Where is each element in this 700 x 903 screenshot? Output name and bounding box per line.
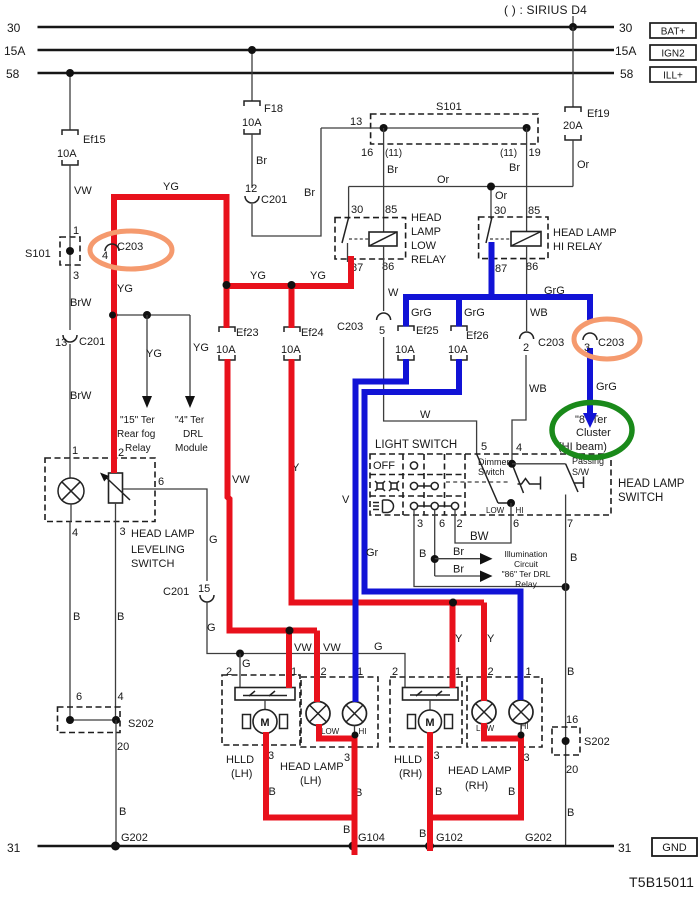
svg-text:30: 30: [494, 205, 506, 217]
wire Y Ef24 to RH lamps (red): [292, 359, 485, 701]
svg-text:Or: Or: [437, 174, 450, 186]
svg-text:WB: WB: [529, 383, 547, 395]
HEAD LAMP RH box: [448, 677, 542, 792]
label illumination circuit: [502, 549, 551, 589]
svg-text:M: M: [425, 717, 434, 729]
svg-text:LOW: LOW: [411, 240, 437, 252]
svg-text:F18: F18: [264, 103, 283, 115]
svg-text:2: 2: [321, 666, 327, 678]
svg-text:YG: YG: [193, 342, 209, 354]
connector C203 pin 2: [520, 332, 565, 354]
svg-text:G202: G202: [525, 832, 552, 844]
svg-text:Or: Or: [495, 190, 508, 202]
bus line 58: [6, 67, 634, 81]
svg-text:3: 3: [344, 752, 350, 764]
label T5B15011: [629, 874, 694, 890]
svg-text:Br: Br: [387, 164, 398, 176]
svg-text:10A: 10A: [281, 344, 301, 356]
wire W LOW relay 86 to dimmer pin 5: [384, 246, 477, 454]
wire WB HI relay 86 to headlamp switch pin 4: [512, 246, 548, 464]
bus line 30: [7, 21, 633, 35]
svg-text:VW: VW: [323, 642, 341, 654]
svg-text:S/W: S/W: [572, 467, 590, 477]
svg-text:Br: Br: [509, 162, 520, 174]
svg-text:GND: GND: [662, 842, 687, 854]
splice S202 left: [58, 691, 154, 753]
lamp LOW RH: [472, 700, 496, 733]
svg-text:12: 12: [245, 183, 257, 195]
label cluster HI beam: [558, 414, 611, 453]
svg-text:HLLD: HLLD: [226, 754, 254, 766]
svg-text:B: B: [567, 666, 574, 678]
svg-text:Br: Br: [304, 187, 315, 199]
wire BrW C201-13 to leveling switch 1: [70, 344, 92, 458]
wire VW Ef23 to LH lamps (red): [228, 359, 318, 702]
wire B light switch 3 to pin7 wire: [414, 516, 570, 591]
svg-text:6: 6: [513, 518, 519, 530]
orange ellipse C203 right: [574, 319, 640, 359]
wire YG branch to Ef24 (red): [289, 286, 295, 328]
label 4 Ter DRL Module: [175, 415, 208, 454]
svg-text:HEAD LAMP: HEAD LAMP: [131, 528, 195, 540]
svg-text:SWITCH: SWITCH: [131, 558, 174, 570]
label V: [342, 494, 350, 506]
svg-text:YG: YG: [310, 270, 326, 282]
svg-text:B: B: [119, 806, 126, 818]
motor M RH: [408, 700, 453, 745]
wire branch rear fog and DRL arrows: [111, 311, 209, 408]
fuse Ef23 10A: [216, 327, 259, 360]
wire G C201-15 to HLLD pins 2: [207, 602, 405, 688]
svg-text:BrW: BrW: [70, 297, 92, 309]
svg-text:YG: YG: [146, 348, 162, 360]
svg-text:Y: Y: [455, 633, 463, 645]
svg-text:( ) : SIRIUS D4: ( ) : SIRIUS D4: [504, 3, 587, 17]
svg-text:G: G: [207, 622, 216, 634]
svg-text:Ef23: Ef23: [236, 327, 259, 339]
HLLD LH box: [222, 675, 300, 780]
svg-text:HEAD: HEAD: [411, 212, 442, 224]
svg-text:C203: C203: [538, 337, 564, 349]
svg-text:3: 3: [120, 526, 126, 538]
wire Br F18 to C201: [252, 134, 267, 188]
svg-text:31: 31: [618, 841, 632, 855]
svg-text:30: 30: [351, 204, 363, 216]
svg-text:5: 5: [379, 325, 385, 337]
svg-text:LEVELING: LEVELING: [131, 544, 185, 556]
svg-text:RELAY: RELAY: [411, 254, 447, 266]
svg-text:VW: VW: [232, 474, 250, 486]
svg-text:Ef19: Ef19: [587, 108, 610, 120]
wire Br S101-19 to HI relay 85: [500, 128, 541, 232]
svg-text:B: B: [343, 824, 350, 836]
bus line 15A: [4, 44, 636, 58]
mechanical link dashed: [446, 481, 508, 483]
svg-text:W: W: [420, 409, 431, 421]
svg-text:HI: HI: [359, 727, 367, 736]
svg-text:B: B: [435, 786, 442, 798]
svg-text:(RH): (RH): [465, 780, 488, 792]
svg-text:Ef15: Ef15: [83, 134, 106, 146]
switch passing: [512, 456, 604, 530]
ground G202 right label: [525, 832, 552, 844]
svg-text:Br: Br: [453, 564, 464, 576]
wire YG branch to Ef23 (red): [224, 283, 230, 328]
svg-text:G202: G202: [121, 832, 148, 844]
lamp LOW LH: [306, 702, 340, 737]
svg-text:Br: Br: [256, 155, 267, 167]
label pins 4 3 leveling: [72, 526, 126, 539]
svg-text:B: B: [269, 786, 276, 798]
svg-text:4: 4: [102, 250, 108, 262]
svg-text:3: 3: [524, 752, 530, 764]
svg-text:LOW: LOW: [486, 506, 505, 515]
svg-text:20A: 20A: [563, 120, 583, 132]
HLLD RH actuator: [403, 688, 459, 701]
svg-text:10A: 10A: [216, 344, 236, 356]
svg-text:16: 16: [566, 714, 578, 726]
svg-text:GrG: GrG: [411, 307, 432, 319]
svg-text:HI: HI: [516, 506, 524, 515]
svg-text:HLLD: HLLD: [394, 754, 422, 766]
fuse F18 10A: [242, 101, 283, 134]
svg-text:S202: S202: [584, 736, 610, 748]
svg-text:G102: G102: [436, 832, 463, 844]
svg-text:(11): (11): [385, 148, 402, 159]
svg-text:(RH): (RH): [399, 768, 422, 780]
junction dot LH lamp ground: [352, 732, 359, 739]
svg-text:3: 3: [434, 750, 440, 762]
svg-text:M: M: [260, 717, 269, 729]
fuse Ef25 10A: [395, 325, 439, 360]
relay HEAD LAMP LOW RELAY: [335, 204, 447, 274]
svg-text:4: 4: [118, 691, 124, 703]
svg-text:B: B: [419, 828, 426, 840]
svg-text:13: 13: [55, 337, 67, 349]
svg-text:IGN2: IGN2: [661, 49, 685, 60]
wire labels B bottom: [269, 786, 516, 799]
motor M LH: [243, 700, 288, 745]
svg-text:16: 16: [361, 147, 373, 159]
svg-text:Ef26: Ef26: [466, 330, 489, 342]
svg-text:15A: 15A: [4, 44, 25, 58]
switch box HEAD LAMP SWITCH: [370, 454, 685, 515]
junction dot Y branch: [449, 599, 457, 607]
labels HEAD LAMP RH pins: [488, 666, 532, 764]
svg-text:YG: YG: [163, 181, 179, 193]
connector C203 pin 5: [337, 313, 391, 337]
relay HEAD LAMP HI RELAY: [479, 205, 617, 275]
svg-text:85: 85: [528, 205, 540, 217]
svg-text:C201: C201: [261, 194, 287, 206]
svg-text:(11): (11): [500, 148, 517, 159]
wire stub SIRIUS to bus 30: [569, 16, 577, 31]
connector C201 pin 12: [245, 183, 287, 206]
svg-text:Gr: Gr: [366, 547, 379, 559]
connector C203 pin 4 labels: [102, 241, 143, 262]
svg-text:3: 3: [417, 518, 423, 530]
svg-text:1: 1: [526, 666, 532, 678]
wire GrG HI relay 87 to fuses and C203-3 (blue): [403, 242, 593, 327]
svg-text:C201: C201: [163, 586, 189, 598]
labels HLLD LH pins: [226, 666, 297, 762]
wire Br S101-16 to LOW relay 85: [361, 128, 402, 232]
svg-text:30: 30: [619, 21, 633, 35]
wire B passing 7 to S202 to G202: [566, 516, 578, 846]
wire BrW S101 to C201-13: [70, 265, 92, 330]
svg-text:Switch: Switch: [478, 467, 505, 477]
svg-text:"86" Ter DRL: "86" Ter DRL: [502, 569, 551, 579]
svg-text:15: 15: [198, 583, 210, 595]
splice S101 left: [25, 225, 80, 282]
svg-text:C201: C201: [79, 336, 105, 348]
fuse Ef15 10A: [57, 130, 106, 165]
label Gr: [366, 547, 379, 559]
svg-text:Or: Or: [577, 159, 590, 171]
svg-text:W: W: [388, 287, 399, 299]
svg-text:DRL: DRL: [183, 429, 203, 440]
svg-text:HEAD LAMP: HEAD LAMP: [448, 765, 512, 777]
wire bus58 to fuse Ef15: [66, 69, 74, 130]
green ellipse cluster HI beam: [552, 403, 632, 458]
splice S202 right: [552, 714, 610, 776]
svg-text:58: 58: [620, 67, 634, 81]
svg-text:B: B: [117, 611, 124, 623]
terminal box ILL+: [650, 67, 696, 82]
svg-text:2: 2: [392, 666, 398, 678]
wire Br light switch 6 illumination arrows: [431, 516, 493, 582]
svg-text:OFF: OFF: [373, 460, 395, 472]
svg-text:HEAD LAMP: HEAD LAMP: [618, 478, 685, 490]
svg-text:Ef24: Ef24: [301, 327, 324, 339]
svg-text:B: B: [567, 807, 574, 819]
svg-text:86: 86: [526, 261, 538, 273]
svg-text:S101: S101: [25, 248, 51, 260]
svg-text:HEAD LAMP: HEAD LAMP: [280, 761, 344, 773]
svg-text:HEAD LAMP: HEAD LAMP: [553, 227, 617, 239]
svg-text:Module: Module: [175, 443, 208, 454]
svg-text:G104: G104: [358, 832, 385, 844]
switch HEAD LAMP LEVELING SWITCH box: [45, 445, 195, 570]
svg-text:Relay: Relay: [515, 579, 537, 589]
connector C201 pin 15: [163, 583, 214, 602]
svg-text:Circuit: Circuit: [514, 559, 539, 569]
svg-text:LAMP: LAMP: [411, 226, 441, 238]
label YG top: [117, 181, 326, 295]
wire VW Ef15 to S101: [70, 165, 92, 237]
HLLD LH actuator: [235, 688, 295, 701]
fuse Ef24 10A: [281, 327, 324, 360]
bus line 31: [7, 841, 632, 855]
junction dot RH lamp ground: [518, 732, 525, 739]
wire bus15A to fuse F18: [248, 46, 256, 101]
junction dot rear fog branch: [109, 312, 116, 319]
svg-text:B: B: [508, 786, 515, 798]
connector C203 pin 3: [583, 333, 624, 354]
potentiometer leveling: [100, 473, 130, 522]
svg-text:Rear fog: Rear fog: [117, 429, 155, 440]
svg-text:B: B: [419, 548, 426, 560]
svg-text:19: 19: [529, 147, 541, 159]
svg-text:Ef25: Ef25: [416, 325, 439, 337]
svg-text:10A: 10A: [242, 117, 262, 129]
wire BW dimmer 6 to light switch 2: [455, 516, 511, 543]
svg-text:30: 30: [7, 21, 21, 35]
svg-text:1: 1: [72, 445, 78, 457]
svg-text:2: 2: [523, 342, 529, 354]
svg-text:3: 3: [73, 270, 79, 282]
svg-text:S101: S101: [436, 101, 462, 113]
wire B S202 to G202 left: [116, 720, 126, 846]
svg-text:GrG: GrG: [464, 307, 485, 319]
connector C203 pin 4 arc: [105, 244, 119, 251]
svg-text:20: 20: [566, 764, 578, 776]
wire B RH lamps to G102 (red): [430, 723, 521, 851]
splice S101 top: [321, 101, 538, 144]
svg-text:B: B: [570, 552, 577, 564]
fuse Ef26 10A: [448, 326, 489, 360]
svg-text:2: 2: [226, 666, 232, 678]
svg-text:G: G: [209, 534, 218, 546]
svg-text:BAT+: BAT+: [661, 27, 686, 38]
junction dot YG Ef24: [288, 281, 296, 289]
svg-text:10A: 10A: [448, 344, 468, 356]
svg-text:2: 2: [118, 447, 124, 459]
svg-text:YG: YG: [117, 283, 133, 295]
connector C201 pin 13: [55, 335, 105, 349]
svg-text:7: 7: [567, 518, 573, 530]
svg-text:31: 31: [7, 841, 21, 855]
wire B LH lamps to G104 (red): [266, 724, 355, 855]
switch dimmer: [477, 441, 541, 530]
svg-text:Br: Br: [453, 546, 464, 558]
svg-text:VW: VW: [294, 642, 312, 654]
orange ellipse C203 left: [90, 231, 172, 269]
svg-text:4: 4: [516, 442, 522, 454]
svg-text:GrG: GrG: [596, 381, 617, 393]
label SIRIUS D4: [504, 3, 587, 17]
terminal box IGN2: [650, 45, 696, 60]
svg-text:Dimmer: Dimmer: [478, 457, 510, 467]
svg-text:C203: C203: [598, 337, 624, 349]
svg-text:10A: 10A: [57, 148, 77, 160]
svg-text:4: 4: [72, 527, 78, 539]
switch LIGHT SWITCH grid: [370, 439, 465, 530]
junction dot VW branch: [286, 627, 294, 635]
wire B leveling 4 to S202: [70, 522, 80, 721]
wire leveling 6 to C201-15: [123, 476, 218, 581]
wire V Ef25 to LH HI lamp (blue): [356, 359, 407, 702]
svg-text:Relay: Relay: [125, 443, 151, 454]
HEAD LAMP LH box: [280, 677, 378, 787]
svg-text:BW: BW: [470, 531, 489, 543]
svg-text:VW: VW: [74, 185, 92, 197]
svg-text:1: 1: [455, 666, 461, 678]
svg-text:2: 2: [488, 666, 494, 678]
svg-text:LOW: LOW: [321, 727, 340, 736]
label GrG left: [411, 307, 432, 319]
wire labels VW Y G bottom: [232, 462, 495, 654]
wire GrG C203-3 to cluster (blue): [583, 348, 617, 428]
svg-text:ILL+: ILL+: [663, 71, 683, 82]
lamp HI LH: [343, 702, 367, 739]
ground G202 left: [111, 832, 148, 851]
svg-text:HI: HI: [521, 722, 529, 731]
svg-text:1: 1: [73, 225, 79, 237]
svg-text:YG: YG: [250, 270, 266, 282]
svg-text:V: V: [342, 494, 350, 506]
svg-text:S202: S202: [128, 718, 154, 730]
svg-text:HI RELAY: HI RELAY: [553, 241, 603, 253]
svg-text:"15" Ter: "15" Ter: [120, 415, 155, 426]
wire Gr Ef26 to RH HI lamp (blue): [365, 359, 521, 700]
svg-text:B: B: [73, 611, 80, 623]
ground G102: [419, 828, 463, 851]
svg-text:T5B15011: T5B15011: [629, 874, 694, 890]
label 15 Ter Rear fog Relay: [117, 415, 155, 454]
svg-text:15A: 15A: [615, 44, 636, 58]
svg-text:C203: C203: [337, 321, 363, 333]
svg-text:2: 2: [457, 518, 463, 530]
svg-text:6: 6: [158, 476, 164, 488]
wire YG LOW relay 87 to leveling switch (red): [114, 197, 351, 473]
terminal box GND: [652, 838, 697, 856]
svg-text:Illumination: Illumination: [505, 549, 548, 559]
svg-text:20: 20: [117, 741, 129, 753]
HLLD RH box: [390, 677, 462, 780]
svg-text:Y: Y: [487, 633, 495, 645]
junction dot YG Ef23: [223, 281, 231, 289]
svg-text:G: G: [374, 641, 383, 653]
wire bus30 to fuse Ef19: [572, 27, 574, 107]
labels HEAD LAMP LH pins: [321, 666, 364, 764]
svg-text:58: 58: [6, 67, 20, 81]
svg-text:Cluster: Cluster: [576, 427, 611, 439]
terminal box BAT+: [650, 23, 696, 38]
svg-text:10A: 10A: [395, 344, 415, 356]
svg-text:6: 6: [76, 691, 82, 703]
svg-text:LIGHT SWITCH: LIGHT SWITCH: [375, 439, 457, 451]
label GrG mid: [464, 307, 485, 319]
svg-text:85: 85: [385, 204, 397, 216]
labels HLLD RH pins: [392, 666, 461, 762]
svg-text:6: 6: [439, 518, 445, 530]
lamp HI RH: [509, 700, 533, 739]
svg-text:SWITCH: SWITCH: [618, 492, 663, 504]
label GrG right: [544, 285, 565, 297]
svg-text:(LH): (LH): [300, 775, 321, 787]
svg-text:BrW: BrW: [70, 390, 92, 402]
lamp leveling indicator: [58, 458, 84, 522]
ground G104: [343, 824, 385, 851]
svg-text:5: 5: [481, 441, 487, 453]
wire Br C201-12 to S101-13: [252, 128, 321, 236]
wire Or Ef19 to relays 30: [349, 140, 590, 219]
svg-text:G: G: [242, 658, 251, 670]
svg-text:WB: WB: [530, 307, 548, 319]
svg-text:(LH): (LH): [231, 768, 252, 780]
wire B leveling 3 to S202: [116, 522, 125, 721]
svg-text:87: 87: [495, 263, 507, 275]
svg-text:"4" Ter: "4" Ter: [175, 415, 205, 426]
svg-text:13: 13: [350, 116, 362, 128]
fuse Ef19 20A: [563, 107, 610, 140]
svg-text:C203: C203: [117, 241, 143, 253]
